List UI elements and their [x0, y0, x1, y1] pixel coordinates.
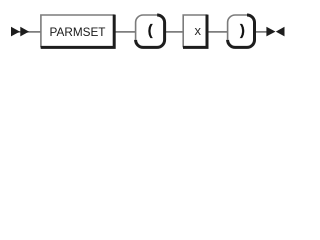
oval ) [228, 15, 255, 47]
svg-text:x: x [195, 23, 202, 38]
svg-text:(: ( [148, 23, 153, 39]
wire main rail [11, 31, 267, 33]
svg-text:PARMSET: PARMSET [50, 25, 106, 39]
start symbol arrows [11, 27, 29, 37]
svg-text:): ) [240, 23, 245, 39]
end symbol bowtie [266, 27, 284, 37]
oval ( [136, 15, 165, 47]
variable box x [183, 15, 207, 48]
keyword box PARMSET [41, 15, 115, 48]
syntax diagram: PARMSET ( x ) [0, 0, 313, 73]
